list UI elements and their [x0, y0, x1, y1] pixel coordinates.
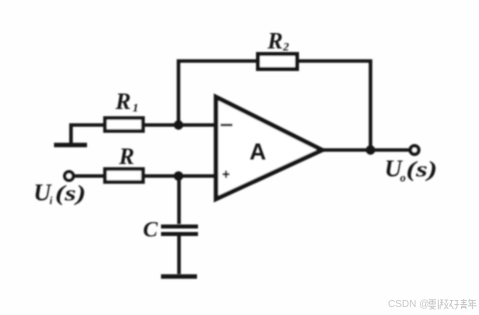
- svg-text:R: R: [118, 144, 134, 169]
- svg-text:2: 2: [282, 40, 289, 54]
- svg-text:i: i: [50, 196, 53, 207]
- svg-text:R: R: [267, 29, 283, 54]
- svg-text:(s): (s): [55, 181, 86, 206]
- svg-text:1: 1: [133, 101, 139, 115]
- svg-text:A: A: [250, 139, 267, 165]
- svg-text:(s): (s): [406, 157, 438, 182]
- svg-text:CSDN @: CSDN @: [388, 299, 429, 310]
- svg-text:C: C: [143, 217, 158, 242]
- svg-text:R: R: [115, 89, 131, 114]
